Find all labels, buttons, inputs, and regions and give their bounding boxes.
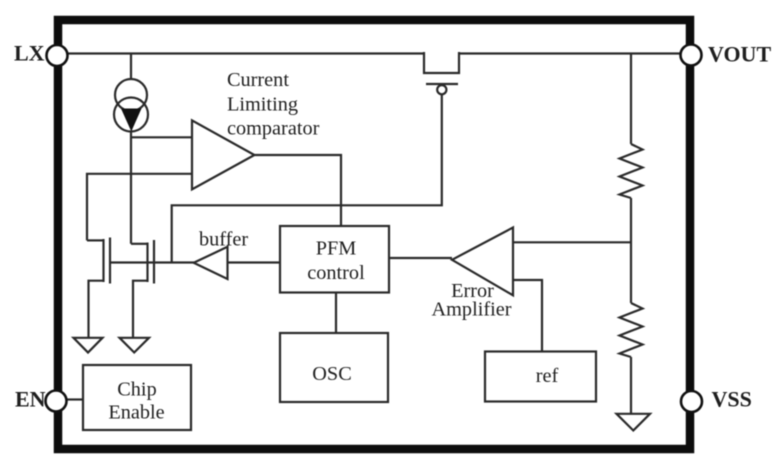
ground G1: [74, 338, 103, 353]
wire PFM to OSC: [335, 293, 337, 334]
current source I1: [114, 54, 148, 132]
transistor Q1 (sense NMOS): [87, 238, 110, 338]
label Error Amplifier: [432, 280, 512, 321]
wire EN to Chip Enable: [67, 398, 83, 400]
wire comparator top input: [131, 136, 192, 138]
wire R1 to R2 (divider tap): [630, 198, 632, 303]
wire gate drive line: [110, 261, 194, 263]
pin VOUT: [681, 45, 702, 66]
block ref: [485, 352, 596, 402]
resistor R2: [620, 303, 643, 357]
svg-text:OSC: OSC: [312, 363, 351, 385]
svg-text:comparator: comparator: [227, 118, 320, 140]
buffer B1: [194, 247, 228, 279]
svg-text:Enable: Enable: [108, 402, 164, 424]
wire comparator bottom input: [87, 174, 192, 241]
op-amp U2 (error amplifier): [452, 228, 513, 296]
svg-text:EN: EN: [15, 387, 46, 412]
wire top rail right (M1 to VOUT): [459, 52, 681, 54]
pin VSS: [681, 391, 702, 412]
wire comparator output to PFM: [254, 155, 341, 225]
wire PFM to error amplifier: [389, 257, 452, 259]
svg-text:Amplifier: Amplifier: [432, 299, 512, 321]
wire I1 down to Q2 drain: [130, 132, 132, 244]
wire top rail left (LX to M1): [67, 52, 424, 54]
wire EA bottom input to ref: [513, 280, 542, 352]
wire VOUT to R1: [630, 54, 632, 145]
ground G3: [617, 414, 651, 431]
transistor M1 (PMOS pass switch): [424, 52, 459, 94]
block PFM control: [280, 226, 389, 293]
svg-text:buffer: buffer: [199, 229, 248, 251]
block Chip Enable: [83, 365, 191, 430]
svg-text:VSS: VSS: [712, 387, 752, 412]
block OSC: [280, 333, 388, 402]
ground G2: [120, 338, 150, 353]
pin EN: [46, 391, 67, 412]
label Current Limiting comparator: [227, 69, 320, 140]
transistor Q2 (switch NMOS): [131, 240, 154, 338]
op-amp U1 (current limiting comparator): [192, 120, 254, 189]
pin LX: [47, 45, 68, 66]
svg-text:PFM: PFM: [316, 238, 357, 260]
svg-text:control: control: [307, 262, 365, 284]
wire R2 to ground: [630, 357, 632, 414]
wire buffer input: [228, 261, 281, 263]
wire M1 gate routing: [172, 94, 442, 262]
svg-text:ref: ref: [536, 365, 559, 387]
svg-text:Current: Current: [227, 69, 289, 91]
wire EA top input to divider tap: [513, 241, 631, 243]
svg-text:VOUT: VOUT: [708, 42, 771, 67]
resistor R1: [620, 144, 643, 198]
IC boundary: [58, 20, 690, 449]
svg-text:LX: LX: [14, 41, 45, 66]
svg-text:Chip: Chip: [117, 379, 156, 401]
svg-text:Limiting: Limiting: [227, 94, 298, 116]
